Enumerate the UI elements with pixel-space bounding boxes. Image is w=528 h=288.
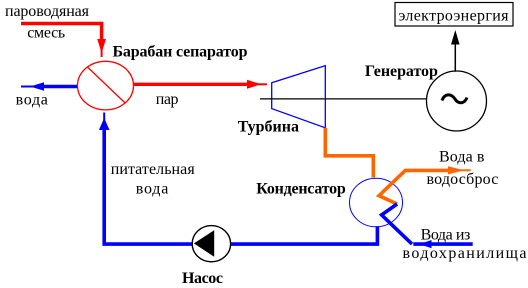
coil: cooling water cold side (blue zigzag): [382, 204, 412, 244]
svg-text:пар: пар: [156, 91, 179, 108]
svg-text:пароводяная: пароводяная: [5, 3, 90, 20]
svg-text:Конденсатор: Конденсатор: [256, 180, 346, 197]
svg-text:смесь: смесь: [27, 25, 65, 42]
arrowhead: feedwater into separator (blue, up): [99, 118, 110, 130]
pump impeller (black triangle): [194, 230, 214, 257]
svg-text:питательная: питательная: [111, 161, 196, 178]
svg-text:водохранилища: водохранилища: [403, 245, 527, 262]
wire: electricity output (black): [454, 44, 456, 72]
turbine T1 (blue trapezoid): [272, 66, 326, 128]
svg-text:Насос: Насос: [182, 270, 223, 287]
wire: inlet water from reservoir (blue): [413, 242, 472, 246]
arrowhead: water to discharge (orange, right): [448, 166, 464, 174]
svg-text:Вода из: Вода из: [421, 227, 471, 244]
separator diagonal mark: [88, 67, 125, 103]
svg-text:Вода в: Вода в: [439, 149, 485, 166]
wire: steam-water mixture feed (red): [21, 24, 102, 41]
arrowhead: inlet water (blue, left): [420, 240, 432, 248]
condenser U2 (blue circle): [350, 178, 403, 227]
wire: water out left (blue): [42, 85, 77, 89]
coil: cooling water hot side (orange zigzag): [379, 170, 448, 204]
wire: exhaust steam turbine to condenser (orange): [325, 128, 373, 178]
arrowhead: feed into separator (red, down): [97, 39, 106, 53]
svg-text:вода: вода: [16, 92, 48, 109]
electricity box: [395, 3, 513, 27]
svg-text:Турбина: Турбина: [238, 119, 299, 136]
generator G1 (black circle): [427, 71, 487, 131]
label: пароводяная смесь: [5, 3, 90, 42]
svg-text:Генератор: Генератор: [365, 63, 438, 80]
svg-text:вода: вода: [136, 181, 169, 198]
wire: condensate out of condenser (blue): [231, 226, 378, 244]
arrowhead: electricity (black, up): [451, 30, 460, 45]
label: Вода в водосброс: [427, 149, 499, 189]
arrowhead: steam into turbine (red, right): [247, 80, 261, 89]
shaft: turbine to generator (black): [260, 98, 427, 100]
drum separator U1 (red circle): [78, 61, 134, 110]
generator AC tilde symbol: [442, 95, 467, 103]
wire: steam to turbine (red): [133, 83, 249, 86]
svg-text:Барабан сепаратор: Барабан сепаратор: [113, 44, 248, 61]
wire: feedwater pump to separator (blue): [104, 130, 192, 244]
label: Вода из водохранилища: [403, 227, 527, 263]
svg-text:водосброс: водосброс: [427, 171, 499, 188]
label: питательная вода: [111, 161, 196, 198]
pump P1 (black circle): [192, 226, 230, 262]
arrowhead: water out (blue, left): [30, 82, 44, 90]
svg-text:электроэнергия: электроэнергия: [399, 8, 510, 25]
